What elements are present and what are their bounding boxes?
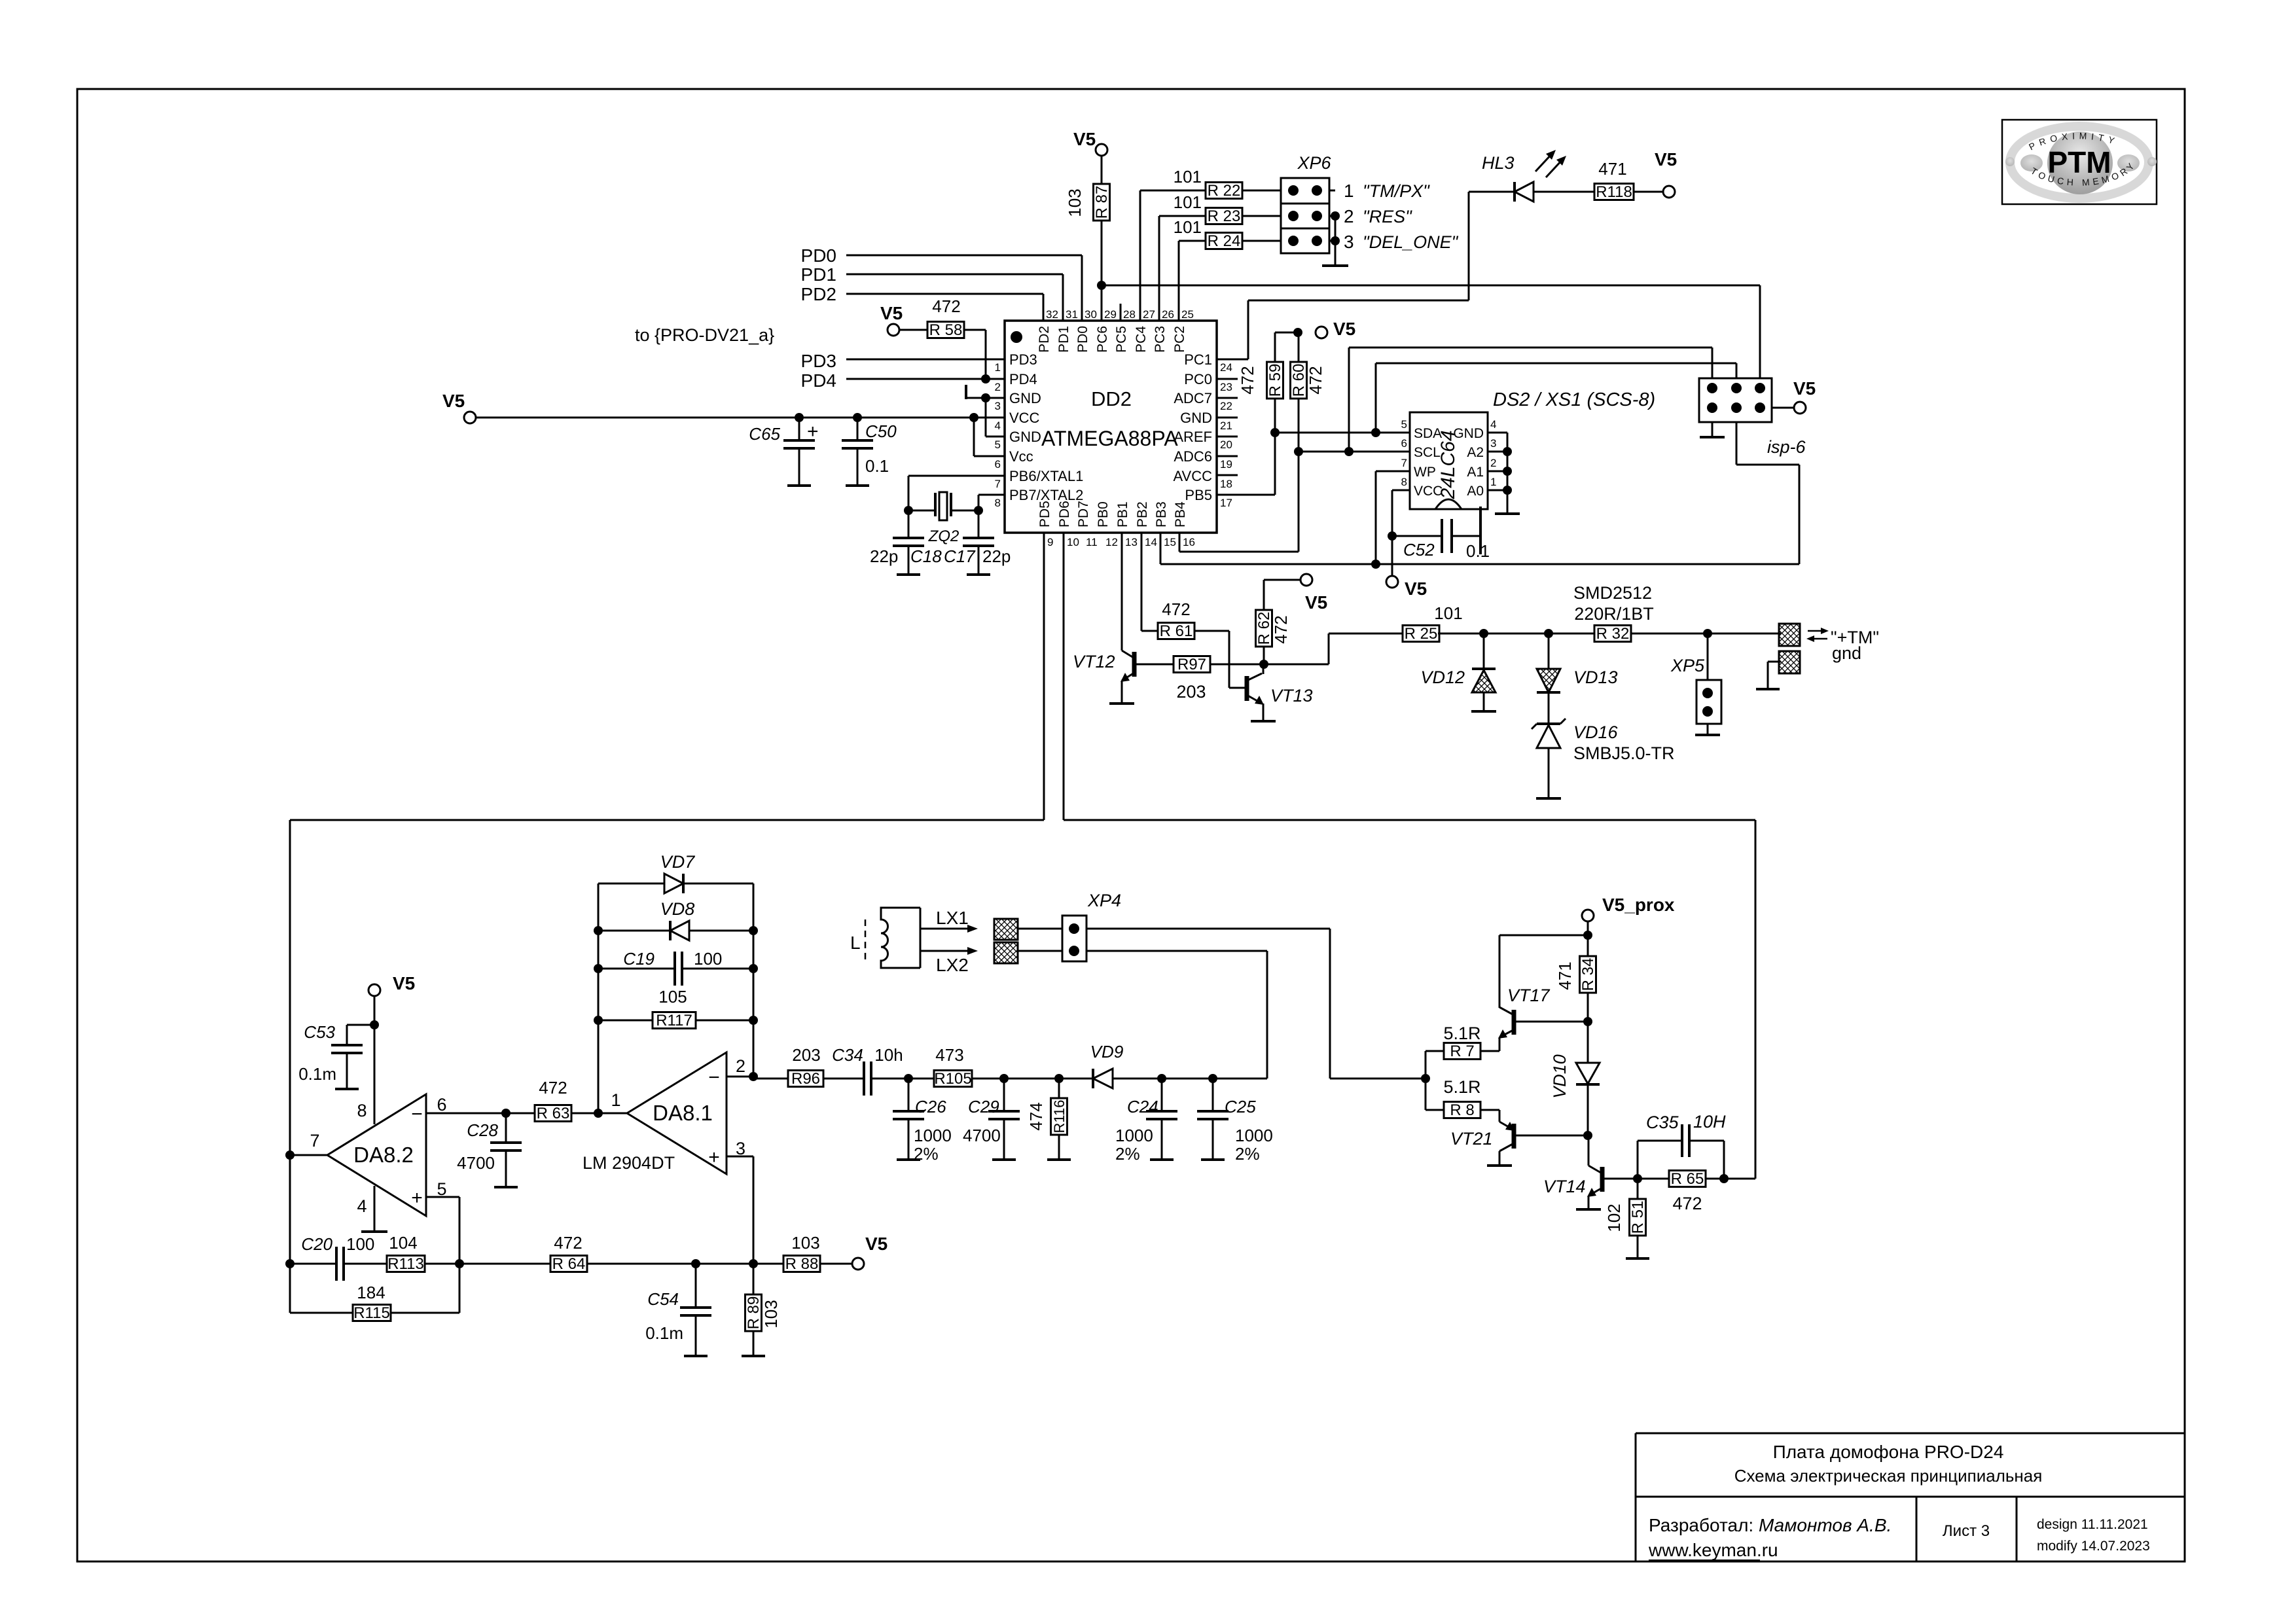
svg-text:VT14: VT14 [1543,1177,1586,1196]
resistor R89 103 [753,1264,755,1294]
svg-text:101: 101 [1434,603,1462,623]
capacitor C17 22p [978,510,980,538]
connector isp-6 [1699,378,1772,422]
svg-text:V5: V5 [880,303,903,323]
resistor R64 472 [459,1263,550,1265]
svg-text:4700: 4700 [457,1153,495,1173]
connector XP4 [1062,916,1086,961]
node V5 pin8 [368,984,380,996]
svg-text:22p: 22p [982,546,1011,566]
node V5 pullups [1293,328,1302,337]
wire SCL [1299,451,1410,453]
svg-text:−: − [411,1103,423,1125]
EEPROM DS2/XS1 24LC64 [1410,412,1488,509]
wire XP4.2 to filter [1086,950,1267,952]
svg-text:2%: 2% [1115,1144,1140,1164]
svg-text:R97: R97 [1177,656,1206,673]
svg-text:SDA: SDA [1414,426,1442,441]
svg-text:LX2: LX2 [936,955,969,975]
svg-text:7: 7 [310,1131,319,1150]
svg-text:C19: C19 [623,949,655,969]
resistor R24 101 [1178,241,1180,321]
svg-text:PC1: PC1 [1184,351,1212,368]
svg-text:ZQ2: ZQ2 [928,527,960,545]
wires A0-A2,GND tie [1488,432,1507,434]
svg-text:PB5: PB5 [1185,487,1212,503]
svg-text:R 32: R 32 [1596,625,1630,643]
diode VD8 [598,930,670,932]
svg-text:R 7: R 7 [1450,1043,1474,1060]
svg-text:VT17: VT17 [1507,986,1551,1005]
svg-text:AREF: AREF [1174,429,1212,445]
svg-text:+: + [411,1187,423,1209]
svg-text:www.keyman.ru: www.keyman.ru [1648,1540,1778,1560]
svg-text:C52: C52 [1403,540,1435,560]
svg-text:PC6: PC6 [1095,326,1110,353]
wire LX2 [920,950,970,952]
capacitor C24 1000 2% [1161,1079,1163,1111]
wire SCL to isp [1348,348,1350,452]
connector XP5 [1707,633,1709,680]
svg-text:C29: C29 [968,1097,999,1116]
resistor R115 184 [290,1312,354,1314]
svg-text:R 25: R 25 [1405,625,1438,643]
svg-text:103: 103 [1065,188,1085,217]
svg-text:PB1: PB1 [1115,501,1130,527]
svg-text:R 63: R 63 [537,1105,570,1122]
svg-text:24: 24 [1220,361,1232,374]
svg-text:9: 9 [1047,536,1053,548]
svg-text:1: 1 [1490,476,1496,488]
svg-text:7: 7 [995,478,1001,490]
svg-text:VD12: VD12 [1420,668,1465,687]
svg-text:28: 28 [1123,308,1136,321]
resistor R62 472 [1300,574,1312,586]
svg-text:R 51: R 51 [1629,1201,1647,1234]
svg-text:PD4: PD4 [1009,371,1037,387]
svg-text:PD0: PD0 [1075,326,1090,353]
wire PB6/XTAL1 [908,475,1005,477]
resistor R88 103 [783,1256,820,1272]
svg-text:5.1R: 5.1R [1443,1077,1480,1097]
svg-text:VD9: VD9 [1090,1042,1124,1061]
resistor R117 105 [598,1020,653,1022]
svg-text:R 59: R 59 [1266,364,1284,397]
ground pins 3,5 [965,385,967,399]
svg-text:PB3: PB3 [1154,501,1169,527]
svg-text:A2: A2 [1467,445,1484,460]
svg-text:Схема электрическая принципиал: Схема электрическая принципиальная [1734,1466,2043,1486]
pad LX1 [994,919,1018,940]
svg-text:2%: 2% [914,1144,939,1164]
svg-text:V5: V5 [1073,129,1096,149]
svg-text:26: 26 [1162,308,1174,321]
svg-text:PD5: PD5 [1037,501,1052,527]
svg-text:PB7/XTAL2: PB7/XTAL2 [1009,487,1083,503]
wire VCC pin8 to V5 [1392,490,1410,491]
svg-text:C20: C20 [301,1234,332,1254]
svg-text:isp-6: isp-6 [1767,437,1806,457]
svg-text:GND: GND [1453,426,1484,441]
wire PB4 to SCL [1298,452,1300,552]
wire pin5 [426,1196,459,1198]
svg-text:C18: C18 [910,546,942,566]
wire SDA [1275,432,1410,434]
svg-text:473: 473 [935,1045,963,1065]
svg-text:3: 3 [1344,232,1354,252]
svg-text:SMD2512: SMD2512 [1573,583,1652,603]
svg-text:11: 11 [1086,536,1098,548]
svg-text:17: 17 [1220,497,1232,509]
svg-text:220R/1BT: 220R/1BT [1574,604,1654,624]
svg-text:7: 7 [1401,457,1407,469]
wire PD5 to opamp output [1043,533,1045,820]
node V5_prox [1582,910,1594,921]
svg-text:PD1: PD1 [1056,326,1071,353]
svg-text:103: 103 [761,1300,781,1328]
svg-text:2: 2 [736,1056,745,1076]
wire pin3 non-inverting [726,1156,753,1158]
svg-text:22p: 22p [870,546,898,566]
svg-text:VD8: VD8 [660,899,695,919]
svg-text:2: 2 [1344,206,1354,226]
resistor R116 474 [1058,1079,1060,1098]
svg-text:C50: C50 [865,421,897,441]
svg-text:472: 472 [1672,1194,1702,1213]
svg-text:PD2: PD2 [801,284,836,304]
svg-text:1: 1 [995,361,1001,374]
svg-text:472: 472 [1238,366,1257,394]
svg-text:25: 25 [1181,308,1194,321]
svg-text:PD3: PD3 [801,351,836,371]
svg-text:0.1: 0.1 [1466,541,1490,561]
svg-text:Vcc: Vcc [1009,448,1033,465]
MCU DD2 ATMEGA88PA [1005,321,1217,533]
svg-text:100: 100 [694,949,722,969]
svg-text:R116: R116 [1051,1100,1067,1133]
svg-text:R117: R117 [656,1012,692,1029]
transistor VT14 [1588,1135,1590,1166]
svg-text:L: L [850,933,861,953]
svg-text:ATMEGA88PA: ATMEGA88PA [1041,427,1178,450]
capacitor C26 1000 2% [908,1079,910,1111]
diode VD13 [1548,633,1550,669]
svg-text:C28: C28 [467,1120,498,1140]
resistor R61 472 [1141,533,1143,631]
svg-text:PB4: PB4 [1173,501,1188,527]
svg-text:4: 4 [1490,418,1496,431]
transistor VT17 [1480,1050,1499,1052]
svg-text:4: 4 [995,419,1001,432]
svg-text:"DEL_ONE": "DEL_ONE" [1363,232,1459,252]
capacitor C28 4700 [505,1113,507,1143]
svg-text:C54: C54 [647,1289,679,1309]
wire PB5 to SDA [1274,433,1276,495]
svg-text:104: 104 [389,1233,417,1253]
resistor R63 472 [506,1113,535,1115]
svg-text:105: 105 [658,987,687,1007]
svg-text:XP4: XP4 [1087,891,1121,910]
svg-text:PC4: PC4 [1134,326,1149,353]
svg-text:18: 18 [1220,478,1232,490]
svg-text:6: 6 [1401,437,1407,450]
svg-text:"RES": "RES" [1363,207,1412,226]
feedback rails [598,883,600,1113]
svg-text:203: 203 [1176,682,1206,702]
capacitor C52 0.1 [1392,535,1442,537]
svg-text:101: 101 [1174,167,1202,187]
resistor R97 203 [1174,656,1210,673]
svg-text:29: 29 [1104,308,1117,321]
svg-text:V5: V5 [1333,319,1355,339]
svg-text:R105: R105 [934,1070,971,1088]
svg-text:1000: 1000 [1115,1126,1153,1145]
svg-text:R 58: R 58 [929,321,963,339]
svg-text:2: 2 [995,381,1001,393]
svg-text:R118: R118 [1596,183,1632,201]
capacitor C35 10H [1637,1141,1639,1179]
svg-text:31: 31 [1066,308,1078,321]
capacitor C18 22p [908,510,910,538]
resistor R118 471 [1534,191,1596,193]
svg-text:0.1: 0.1 [865,456,889,476]
svg-text:Плата домофона PRO-D24: Плата домофона PRO-D24 [1773,1442,2004,1462]
svg-text:VT12: VT12 [1073,652,1115,671]
inductor L LX1/LX2 [881,908,920,968]
svg-text:10h: 10h [874,1045,903,1065]
svg-text:19: 19 [1220,458,1232,471]
capacitor C53 0.1m [347,1024,374,1026]
svg-text:A1: A1 [1467,465,1484,480]
svg-text:16: 16 [1183,536,1195,548]
svg-text:DA8.2: DA8.2 [353,1143,414,1167]
svg-text:PD1: PD1 [801,264,836,285]
svg-text:472: 472 [1306,366,1325,394]
node V5 VCC rail [464,412,476,423]
svg-text:472: 472 [554,1233,582,1253]
svg-text:8: 8 [357,1101,367,1120]
svg-text:27: 27 [1143,308,1155,321]
svg-text:design 11.11.2021: design 11.11.2021 [2037,1517,2148,1532]
svg-text:V5: V5 [393,973,415,993]
svg-text:PC0: PC0 [1184,371,1212,387]
svg-text:PTM: PTM [2047,145,2111,179]
svg-text:471: 471 [1555,961,1575,990]
svg-text:DS2 / XS1 (SCS-8): DS2 / XS1 (SCS-8) [1493,389,1655,410]
svg-text:1000: 1000 [1235,1126,1273,1145]
svg-text:R96: R96 [791,1070,820,1088]
svg-text:VCC: VCC [1414,484,1443,499]
svg-text:V5: V5 [865,1234,888,1254]
svg-text:3: 3 [736,1139,745,1158]
svg-text:modify 14.07.2023: modify 14.07.2023 [2037,1539,2150,1554]
svg-text:V5: V5 [1405,579,1427,599]
diode VD12 [1483,633,1485,669]
svg-text:3: 3 [995,400,1001,412]
svg-text:5.1R: 5.1R [1443,1024,1480,1043]
svg-text:PB0: PB0 [1096,501,1111,527]
capacitor C34 10h [863,1061,865,1096]
svg-text:10: 10 [1067,536,1079,548]
svg-text:VD7: VD7 [660,852,696,872]
resistor R32 220R [1594,626,1631,642]
resistor R23 101 [1158,216,1160,321]
svg-text:PB6/XTAL1: PB6/XTAL1 [1009,468,1083,484]
svg-text:4700: 4700 [963,1126,1001,1145]
svg-text:DD2: DD2 [1091,387,1132,410]
svg-text:+: + [708,1147,720,1168]
svg-text:184: 184 [357,1283,385,1302]
svg-text:13: 13 [1125,536,1138,548]
svg-text:PD2: PD2 [1037,326,1052,353]
svg-text:R 62: R 62 [1255,612,1273,645]
resistor R7 5.1R [1425,1051,1427,1110]
wire base node to R25 [1264,664,1329,666]
svg-text:PD3: PD3 [1009,351,1037,368]
capacitor C65 [798,418,800,440]
svg-text:R 22: R 22 [1208,182,1241,200]
svg-text:C26: C26 [915,1097,946,1116]
wire PC6/RESET to isp [1102,285,1760,287]
pad gnd [1779,651,1800,673]
svg-text:15: 15 [1164,536,1176,548]
svg-text:VCC: VCC [1009,410,1040,426]
arrows TM [1808,630,1825,632]
svg-text:GND: GND [1180,410,1212,426]
transistor VT21 [1480,1109,1499,1111]
svg-text:100: 100 [346,1234,374,1254]
wire pin6 inverting [426,1113,506,1115]
svg-text:5: 5 [1401,418,1407,431]
svg-text:101: 101 [1174,192,1202,212]
svg-text:101: 101 [1174,217,1202,237]
svg-text:R 61: R 61 [1160,622,1193,640]
svg-text:23: 23 [1220,381,1232,393]
svg-text:C24: C24 [1127,1097,1158,1116]
svg-text:PD6: PD6 [1057,501,1072,527]
svg-text:12: 12 [1105,536,1118,548]
svg-text:PC2: PC2 [1172,326,1187,353]
svg-text:8: 8 [995,497,1001,509]
svg-text:AVCC: AVCC [1174,468,1213,484]
wire pin2 inverting [726,1076,753,1078]
transistor VT12 [1121,533,1123,651]
diode VD7 [598,883,664,885]
svg-text:SCL: SCL [1414,445,1441,460]
wire PC5 stub [1120,304,1122,321]
capacitor C29 4700 [1003,1079,1005,1111]
diode VD9 [1093,1069,1113,1088]
svg-text:103: 103 [791,1233,819,1253]
wire PB7/XTAL2 [978,495,980,510]
svg-text:GND: GND [1009,390,1041,406]
svg-text:R115: R115 [353,1304,390,1322]
svg-text:3: 3 [1490,437,1496,450]
svg-text:21: 21 [1220,419,1232,432]
capacitor C25 1000 2% [1212,1079,1214,1111]
svg-text:VT13: VT13 [1270,686,1313,705]
svg-text:ADC7: ADC7 [1174,390,1212,406]
PTM logo [2002,120,2157,204]
svg-text:+: + [807,421,819,442]
svg-text:2%: 2% [1235,1144,1260,1164]
svg-text:Разработал:: Разработал: [1649,1515,1753,1535]
svg-text:1: 1 [611,1090,620,1110]
svg-text:R 65: R 65 [1671,1170,1704,1188]
svg-text:R 23: R 23 [1208,207,1241,225]
svg-text:R 88: R 88 [785,1255,819,1273]
resistor R105 473 [908,1078,935,1080]
svg-text:472: 472 [539,1078,567,1097]
svg-text:1: 1 [1344,181,1354,201]
capacitor C54 0.1m [695,1264,697,1308]
svg-text:2: 2 [1490,457,1496,469]
wire PD6 to driver [1063,533,1065,820]
resistor R59 472 [1274,332,1276,363]
svg-text:203: 203 [792,1045,820,1065]
svg-text:XP6: XP6 [1297,153,1331,173]
svg-text:PD4: PD4 [801,370,836,391]
svg-text:VT21: VT21 [1450,1129,1493,1149]
svg-text:PB2: PB2 [1135,501,1150,527]
svg-text:1000: 1000 [914,1126,952,1145]
svg-text:C65: C65 [749,424,780,444]
capacitor C20 100 [290,1263,336,1265]
svg-text:471: 471 [1598,159,1626,179]
wire LX1 [920,928,970,930]
capacitor C50 [857,418,859,440]
svg-text:0.1m: 0.1m [645,1323,683,1343]
svg-text:gnd: gnd [1832,643,1861,663]
resistor R60 472 [1298,332,1300,363]
resistor R34 471 [1580,956,1596,993]
svg-text:R 64: R 64 [552,1255,586,1273]
svg-text:Мамонтов А.В.: Мамонтов А.В. [1759,1515,1892,1535]
svg-text:472: 472 [1162,599,1190,619]
wire SDA to isp [1375,363,1377,433]
svg-text:5: 5 [995,438,1001,451]
svg-text:Лист 3: Лист 3 [1943,1522,1990,1540]
svg-text:C34: C34 [832,1045,863,1065]
svg-text:PD7: PD7 [1076,501,1091,527]
wire XP4.1 to R7/R8 [1086,928,1330,930]
svg-text:R 87: R 87 [1093,186,1111,219]
zener VD16 SMBJ5.0 [1537,722,1560,725]
svg-text:474: 474 [1026,1102,1046,1130]
resistor R25 101 [1403,626,1439,642]
resistor R113 104 [387,1256,425,1272]
svg-text:A0: A0 [1467,484,1484,499]
svg-text:V5: V5 [442,391,465,411]
title block [1635,1433,1637,1561]
connector XP6 [1281,178,1329,253]
resistor R65 472 [1638,1178,1669,1180]
resistor R8 5.1R [1426,1109,1444,1111]
svg-text:C17: C17 [944,546,976,566]
svg-text:C25: C25 [1225,1097,1256,1116]
svg-text:V5: V5 [1793,378,1816,399]
svg-text:5: 5 [437,1179,446,1199]
svg-text:VD13: VD13 [1573,668,1618,687]
svg-text:VD10: VD10 [1550,1054,1570,1099]
diode VD10 [1587,1022,1589,1063]
svg-text:4: 4 [357,1196,367,1216]
svg-text:V5_prox: V5_prox [1602,895,1675,915]
pad LX2 [994,942,1018,963]
svg-text:32: 32 [1046,308,1058,321]
svg-text:GND: GND [1009,429,1041,445]
transistor VT13 [1245,676,1249,701]
